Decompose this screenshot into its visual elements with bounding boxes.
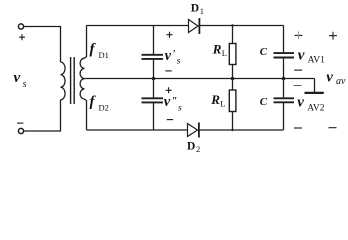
svg-text:R: R (212, 41, 222, 56)
plus sign v's (167, 32, 173, 38)
capacitor v's (142, 54, 164, 56)
secondary winding upper half (80, 58, 84, 78)
minus sign vav (329, 127, 337, 129)
transformer core (71, 57, 75, 104)
svg-text:L: L (222, 48, 227, 58)
capacitor v''s (142, 97, 164, 99)
svg-text:1: 1 (200, 6, 204, 16)
wire RL2 bottom lead (232, 112, 234, 131)
svg-text:s: s (23, 79, 27, 90)
svg-text:′: ′ (173, 49, 176, 60)
junction node center tap (152, 77, 156, 81)
svg-text:L: L (220, 99, 225, 109)
wire C1 bottom lead (283, 58, 285, 78)
minus sign vAV2 top (294, 85, 302, 87)
minus sign v's (165, 70, 171, 72)
wire v's branch upper (153, 26, 155, 55)
wire primary to bottom-left terminal (24, 100, 61, 131)
junction node RL2 bottom (231, 129, 233, 131)
svg-text:v: v (165, 48, 172, 64)
terminal top-left (18, 24, 23, 29)
minus sign vs (17, 122, 23, 124)
svg-text:f: f (90, 94, 97, 110)
svg-text:v: v (297, 95, 304, 111)
svg-text:D: D (191, 2, 199, 14)
svg-text:C: C (260, 46, 268, 58)
wire RL2 top lead (232, 79, 234, 91)
plus sign v''s (166, 87, 172, 93)
primary winding (61, 62, 66, 100)
wire top rail right of D1 (199, 25, 283, 27)
wire C1 top lead (283, 26, 285, 53)
capacitor C2 (274, 97, 295, 99)
svg-text:AV1: AV1 (308, 55, 325, 65)
svg-text:v: v (14, 70, 21, 86)
resistor RL1 (229, 44, 236, 65)
svg-text:av: av (336, 76, 346, 87)
wire C2 top lead (283, 79, 285, 98)
svg-text:D2: D2 (99, 103, 109, 113)
capacitor C1 (274, 52, 295, 54)
wire RL1 bottom lead (232, 65, 234, 79)
svg-text:s: s (178, 103, 182, 113)
wire middle rail (center tap) (85, 78, 315, 80)
wire v''s branch upper (153, 79, 155, 98)
resistor RL2 (229, 90, 236, 112)
minus sign vAV2 bottom (294, 127, 302, 129)
svg-text:v: v (326, 69, 333, 85)
wire RL1 top lead (232, 26, 234, 44)
svg-text:2: 2 (196, 144, 200, 154)
diode D1 (189, 20, 199, 33)
plus sign vAV1 (295, 34, 303, 36)
wire C2 bottom lead (283, 103, 285, 130)
terminal bottom-left (18, 128, 23, 133)
wire v''s branch lower (153, 103, 155, 130)
wire output drop (314, 79, 316, 93)
diode D2 (188, 124, 198, 137)
svg-text:D: D (187, 141, 195, 153)
wire top-left to primary (24, 27, 61, 63)
output terminal bar (305, 92, 324, 94)
minus sign v''s (167, 119, 173, 121)
svg-text:s: s (177, 56, 181, 66)
minus sign vAV1 (294, 69, 302, 71)
plus sign vs (19, 34, 25, 40)
svg-text:v: v (164, 94, 171, 110)
svg-text:D1: D1 (99, 50, 109, 60)
svg-text:v: v (298, 47, 305, 63)
junction node RL middle (231, 77, 235, 81)
wire secondary top lead (85, 26, 87, 59)
svg-text:AV2: AV2 (307, 103, 324, 113)
svg-text:R: R (210, 92, 220, 107)
secondary winding lower half (80, 79, 84, 99)
wire bottom rail right of D2 (199, 129, 284, 131)
svg-text:″: ″ (172, 96, 178, 107)
svg-text:C: C (260, 96, 268, 108)
junction node C middle (282, 77, 286, 81)
wire top rail left of D1 (87, 25, 189, 27)
junction node RL1 top (231, 24, 233, 26)
wire v's branch lower (153, 60, 155, 79)
svg-text:f: f (90, 41, 97, 57)
wire secondary bottom lead (85, 99, 87, 130)
wire bottom rail left of D2 (87, 129, 188, 131)
plus sign vav (329, 32, 337, 40)
